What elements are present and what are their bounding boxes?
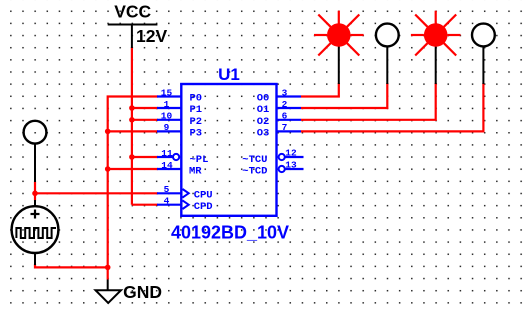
svg-text:15: 15 xyxy=(161,87,173,98)
junction GND-MR xyxy=(105,166,111,172)
wire O3 to lamp X4 xyxy=(301,83,483,131)
wire O0 to lamp X1 xyxy=(301,83,339,97)
wire VCC vertical xyxy=(131,47,133,205)
svg-text:6: 6 xyxy=(282,111,288,122)
wire VCC to CPD pin4 xyxy=(132,204,158,206)
pin 15 P0 stub xyxy=(157,87,181,98)
pin 9 P3 stub xyxy=(157,122,181,133)
ground GND symbol xyxy=(96,280,162,304)
svg-text:12V: 12V xyxy=(136,26,167,46)
svg-text:U1: U1 xyxy=(218,65,240,84)
wire GND vertical xyxy=(108,97,158,280)
junction pulse-CPU xyxy=(32,191,38,197)
svg-text:10: 10 xyxy=(161,111,173,122)
lamp X1 lit LED xyxy=(314,11,364,84)
wire node pulse top red segment xyxy=(34,182,36,201)
wire VCC to P2 pin10 xyxy=(132,119,158,121)
junction GND-P3 xyxy=(105,129,111,135)
lamp X2 unlit xyxy=(376,24,399,84)
wire pulse top to CPU pin5 xyxy=(35,192,158,194)
pin 1 P1 stub xyxy=(157,99,181,110)
pin 11 ~PL stub with bubble xyxy=(157,148,179,160)
pin 12 ~TCU stub with bubble xyxy=(279,148,304,161)
svg-text:5: 5 xyxy=(164,184,170,195)
pin 3 O0 stub xyxy=(277,87,302,98)
connector J1 top-left xyxy=(24,121,47,182)
svg-text:MR: MR xyxy=(189,165,202,177)
svg-text:O3: O3 xyxy=(257,128,270,140)
wire GND to MR pin14 xyxy=(108,168,158,170)
wire VCC to P1 pin1 xyxy=(132,107,158,109)
pin 6 O2 stub xyxy=(277,111,302,122)
svg-text:~PL: ~PL xyxy=(190,154,209,166)
pin 10 P2 stub xyxy=(157,111,181,122)
svg-text:CPD: CPD xyxy=(194,201,213,213)
svg-text:P2: P2 xyxy=(190,116,203,128)
svg-text:13: 13 xyxy=(285,160,297,171)
svg-text:O0: O0 xyxy=(257,93,270,105)
pin 13 ~TCD stub with bubble xyxy=(279,160,304,173)
svg-text:P1: P1 xyxy=(190,104,203,116)
source V1 pulse generator xyxy=(12,200,59,265)
pin 5 CPU stub with clock triangle xyxy=(157,184,189,198)
junction GND bottom xyxy=(105,265,111,271)
svg-text:3: 3 xyxy=(282,87,288,98)
pin 7 O3 stub xyxy=(277,122,302,133)
wire O1 to lamp X2 xyxy=(301,83,387,108)
svg-text:O2: O2 xyxy=(257,116,270,128)
svg-text:1: 1 xyxy=(164,99,170,110)
svg-text:VCC: VCC xyxy=(114,1,151,21)
svg-text:CPU: CPU xyxy=(194,190,213,202)
svg-text:12: 12 xyxy=(285,148,297,159)
svg-text:~TCU: ~TCU xyxy=(242,154,267,166)
junction VCC-P1 xyxy=(129,105,135,111)
power VCC symbol xyxy=(108,1,168,48)
wire O2 to lamp X3 xyxy=(301,83,436,120)
pin 4 CPD stub with clock triangle xyxy=(157,196,189,210)
svg-text:~TCD: ~TCD xyxy=(242,165,267,177)
svg-text:40192BD_10V: 40192BD_10V xyxy=(171,223,289,243)
pin 14 MR stub xyxy=(157,160,181,171)
svg-text:O1: O1 xyxy=(257,104,270,116)
wire pulse bottom to GND xyxy=(35,264,108,267)
junction VCC-PL xyxy=(129,154,135,160)
svg-text:9: 9 xyxy=(164,122,170,133)
svg-text:P3: P3 xyxy=(190,128,203,140)
svg-text:GND: GND xyxy=(123,282,162,302)
svg-text:2: 2 xyxy=(282,99,288,110)
svg-text:7: 7 xyxy=(282,122,288,133)
junction VCC-P2 xyxy=(129,117,135,123)
lamp X3 lit LED xyxy=(411,11,461,84)
wire VCC to ~PL pin11 xyxy=(132,156,158,158)
pin 2 O1 stub xyxy=(277,99,302,110)
op IC U1 body xyxy=(181,84,276,216)
lamp X4 unlit xyxy=(472,24,495,84)
svg-text:P0: P0 xyxy=(190,93,203,105)
wire GND to P3 pin9 xyxy=(108,130,158,132)
svg-text:11: 11 xyxy=(161,148,173,159)
svg-text:4: 4 xyxy=(164,196,170,207)
svg-text:14: 14 xyxy=(161,160,173,171)
